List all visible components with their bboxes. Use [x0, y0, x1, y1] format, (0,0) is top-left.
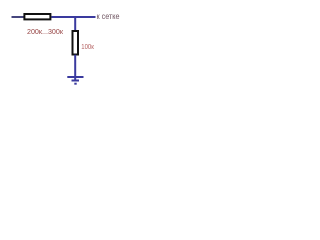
svg-text:к сетке: к сетке [97, 12, 120, 21]
svg-text:200к...300к: 200к...300к [27, 27, 64, 36]
wire [12, 16, 25, 18]
resistor R2 [73, 31, 79, 55]
resistor R1 [24, 14, 50, 19]
wire [51, 16, 95, 18]
ground [67, 77, 83, 84]
wire [74, 17, 76, 31]
svg-text:100к: 100к [81, 42, 94, 51]
wire [74, 55, 76, 80]
